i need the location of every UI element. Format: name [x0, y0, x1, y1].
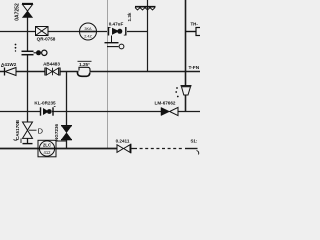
opto KL-0R235 — [41, 107, 56, 116]
wire stub — [56, 140, 67, 142]
svg-text:D: D — [38, 127, 44, 136]
svg-text:QR-0758: QR-0758 — [37, 37, 56, 42]
diode pair 0.2411 — [117, 144, 131, 154]
diac D — [23, 122, 37, 138]
label 1.25 — [78, 61, 92, 67]
svg-text:S1:: S1: — [191, 139, 198, 144]
diode D2 A41W2 — [1, 67, 16, 76]
wire V2 — [66, 72, 68, 149]
svg-text:AB4483: AB4483 — [43, 62, 60, 67]
gray sheet line — [107, 0, 109, 148]
wire rail R4 — [0, 148, 198, 150]
indicator lamp circle — [80, 23, 97, 40]
svg-text:0.47uF: 0.47uF — [109, 22, 124, 27]
ground terminal — [105, 36, 124, 49]
svg-text:A41W2: A41W2 — [1, 62, 17, 67]
terminal TH — [186, 28, 203, 36]
resistor R-top — [135, 7, 156, 10]
wire rail R1 — [0, 31, 148, 33]
svg-text:2.4Z: 2.4Z — [84, 35, 92, 39]
motor 2LC 412 — [38, 140, 56, 157]
label ticks — [175, 87, 178, 97]
svg-text:NG7236: NG7236 — [54, 124, 59, 142]
svg-text:LM-67662: LM-67662 — [155, 101, 176, 106]
wire V4 — [185, 0, 187, 112]
diode pair LM-67662 — [161, 107, 178, 115]
connector S1 — [191, 139, 199, 155]
svg-text:0.2411: 0.2411 — [116, 139, 130, 144]
capacitor C1 — [22, 51, 34, 54]
svg-text:0A7252: 0A7252 — [15, 3, 21, 21]
svg-text:1.3k: 1.3k — [127, 12, 132, 21]
svg-text:3KA: 3KA — [84, 27, 92, 31]
crystal C2 0.47uF — [109, 27, 126, 36]
diode D5 on V4 — [181, 86, 192, 95]
svg-text:412: 412 — [44, 150, 52, 155]
wire V1 — [27, 18, 29, 144]
svg-text:2LC: 2LC — [43, 143, 52, 148]
wire rail R3 — [0, 111, 200, 113]
wire V3 — [147, 0, 149, 72]
label ticks — [15, 44, 17, 52]
svg-text:CA5170B: CA5170B — [15, 119, 20, 140]
connector dot pair — [34, 50, 48, 55]
svg-text:KL-0R235: KL-0R235 — [34, 100, 56, 105]
svg-text:1.25°: 1.25° — [79, 62, 90, 67]
thermal fuse 1.25 — [77, 67, 90, 76]
wire rail R2 — [0, 71, 200, 73]
lamp box QR-0758 — [36, 27, 49, 36]
zener diode D0 top — [22, 4, 33, 18]
svg-text:T-FN: T-FN — [189, 65, 200, 71]
plate end V1 — [14, 139, 33, 144]
TVS AB4483 — [45, 68, 60, 76]
varistor NG7236 — [61, 126, 72, 140]
svg-text:TH-: TH- — [191, 22, 199, 27]
